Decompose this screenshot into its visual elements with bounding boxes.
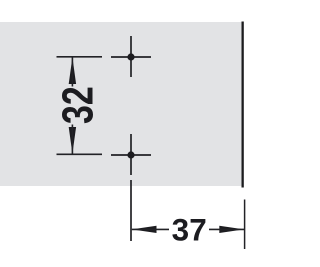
dim 37: right arrow bbox=[219, 226, 244, 233]
dim 32: bottom tick bbox=[57, 153, 103, 155]
dim 32: upper arrow bbox=[69, 57, 76, 84]
upper hole dot bbox=[127, 53, 134, 60]
svg-text:37: 37 bbox=[172, 212, 207, 248]
svg-text:32: 32 bbox=[53, 86, 102, 124]
dim 37: right extension line (from panel edge) bbox=[244, 200, 246, 250]
dim 37: left extension line (from lower hole) bbox=[130, 180, 132, 241]
lower hole dot bbox=[127, 151, 134, 158]
dim 32: upper line segment bbox=[71, 57, 73, 86]
dim 32: lower arrow bbox=[69, 127, 76, 154]
upper drill hole cross bbox=[111, 36, 151, 77]
lower drill hole cross bbox=[111, 134, 151, 175]
dim 37: left arrow bbox=[132, 226, 157, 233]
dim 32: top tick bbox=[57, 56, 103, 58]
dim 37: right line segment bbox=[209, 228, 244, 230]
panel front edge (thick black bar) bbox=[242, 22, 244, 188]
dim 37: left line segment bbox=[132, 228, 169, 230]
dim 32: lower line segment bbox=[71, 125, 73, 154]
panel (mounting surface, light gray) bbox=[0, 22, 242, 186]
